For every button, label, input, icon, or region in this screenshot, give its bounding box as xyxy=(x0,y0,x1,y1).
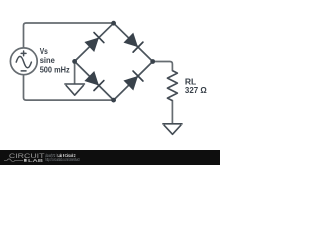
svg-text:500 mHz: 500 mHz xyxy=(40,66,70,75)
svg-text:sine: sine xyxy=(40,56,56,65)
svg-text:Vs: Vs xyxy=(40,47,49,56)
svg-text:http://circuitlab.com/c8e6hw3: http://circuitlab.com/c8e6hw3 xyxy=(45,157,80,162)
svg-text:327 Ω: 327 Ω xyxy=(185,86,207,95)
svg-text:LAB: LAB xyxy=(28,158,44,164)
